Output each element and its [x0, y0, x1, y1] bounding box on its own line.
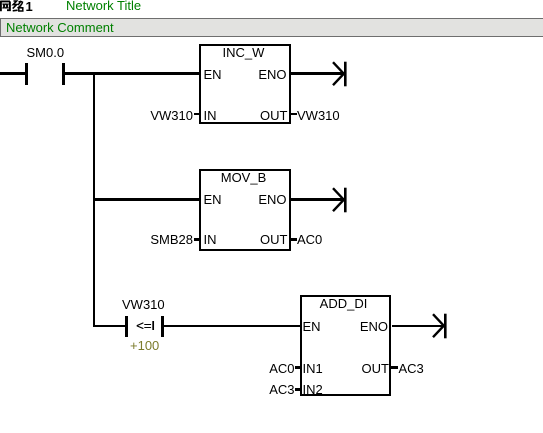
box INC_W	[199, 44, 291, 124]
tick IN2 input	[295, 388, 301, 391]
compare operator <=I	[136, 319, 155, 332]
tick OUT output	[291, 238, 297, 241]
pin IN	[204, 109, 217, 122]
tick OUT output	[291, 113, 297, 116]
glyph wang approx	[1, 1, 10, 12]
wire left rail to contact	[0, 72, 26, 74]
operand VW310 compare	[122, 298, 165, 311]
wire ENO to arrow	[291, 72, 345, 74]
operand AC3 out	[399, 362, 424, 375]
box ADD_DI	[300, 295, 391, 397]
arrow terminal rung 1	[331, 61, 348, 87]
network number label 网络 1	[0, 0, 34, 14]
tick IN input	[194, 113, 200, 116]
tick IN input	[194, 238, 200, 241]
box MOV_B	[199, 169, 291, 251]
pin ENO	[199, 68, 287, 81]
contact SM0.0 bar 2	[62, 63, 65, 85]
wire ENO to arrow rung 3	[392, 325, 445, 328]
constant +100	[130, 339, 159, 352]
operand AC3 in2	[200, 383, 295, 396]
tick OUT output	[391, 366, 398, 369]
pin OUT	[300, 362, 389, 375]
arrow terminal rung 3	[431, 313, 448, 339]
operand VW310 out	[297, 109, 340, 122]
contact SM0.0 bar 1	[25, 63, 28, 85]
operand AC0 out	[297, 233, 322, 246]
title ADD_DI	[298, 297, 389, 310]
pin OUT	[199, 109, 288, 122]
label SM0.0	[27, 46, 65, 59]
pin OUT	[199, 233, 288, 246]
title MOV_B	[198, 171, 290, 184]
wire branch to MOV_B EN	[93, 198, 199, 200]
operand SMB28	[100, 233, 193, 246]
network comment text	[6, 21, 114, 34]
pin IN2	[303, 383, 323, 396]
svg-text:1: 1	[26, 0, 33, 14]
arrow terminal rung 2	[331, 187, 348, 213]
compare contact bar 2	[161, 316, 164, 338]
wire ENO to arrow rung 2	[291, 198, 345, 200]
wire compare to ADD_DI EN	[164, 325, 301, 328]
compare contact bar 1	[125, 316, 128, 338]
wire branch corner to compare contact	[93, 325, 126, 328]
pin EN	[204, 193, 222, 206]
pin IN1	[303, 362, 323, 375]
network comment bar	[0, 18, 543, 37]
pin IN	[204, 233, 217, 246]
tick IN1 input	[295, 366, 301, 369]
wire contact to INC_W EN	[65, 72, 200, 74]
pin ENO	[300, 320, 388, 333]
glyph luo approx	[13, 1, 18, 11]
wire branch vertical	[93, 72, 96, 327]
pin ENO	[199, 193, 287, 206]
operand VW310 in	[100, 109, 193, 122]
title INC_W	[198, 46, 290, 59]
operand AC0 in1	[200, 362, 295, 375]
network title text	[66, 0, 141, 12]
pin EN	[303, 320, 321, 333]
pin EN	[204, 68, 222, 81]
